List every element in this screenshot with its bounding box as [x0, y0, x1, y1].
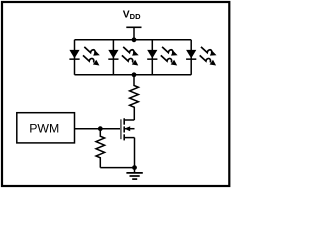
LED D2: [108, 47, 138, 66]
junction node source/ground: [132, 165, 137, 170]
resistor R2 (gate pulldown): [96, 129, 105, 168]
resistor R1 (ballast): [130, 75, 139, 120]
wire LED branch 2: [112, 40, 114, 75]
LED D4: [186, 47, 216, 66]
LED D1: [69, 47, 99, 66]
MOSFET Q1: [121, 118, 135, 140]
svg-text:PWM: PWM: [29, 122, 59, 136]
wire LED branch 1: [74, 40, 76, 75]
body arrow: [124, 126, 130, 131]
channel segment source: [123, 134, 125, 140]
frame border: [2, 2, 229, 186]
ground: [126, 168, 142, 180]
wire source down: [134, 138, 136, 168]
junction node bottom bus: [132, 72, 137, 77]
wire top bus: [75, 39, 192, 41]
channel segment body: [123, 126, 125, 132]
wire bottom bus: [75, 74, 192, 76]
LED D3: [147, 47, 177, 66]
wire PWM to gate: [75, 128, 121, 130]
source stub: [124, 137, 134, 139]
junction node top bus: [132, 37, 137, 42]
junction node gate: [98, 126, 103, 131]
body wire: [125, 128, 135, 130]
gate bar: [120, 119, 122, 139]
PWM box: [17, 113, 75, 143]
VDD terminal bar: [126, 26, 141, 28]
wire LED branch 4: [190, 40, 192, 75]
wire R2 to source node: [100, 167, 134, 169]
wire VDD stem: [133, 27, 135, 40]
channel segment drain: [123, 118, 125, 124]
svg-text:VDD: VDD: [123, 10, 141, 22]
drain stub: [124, 119, 134, 121]
wire LED branch 3: [151, 40, 153, 75]
